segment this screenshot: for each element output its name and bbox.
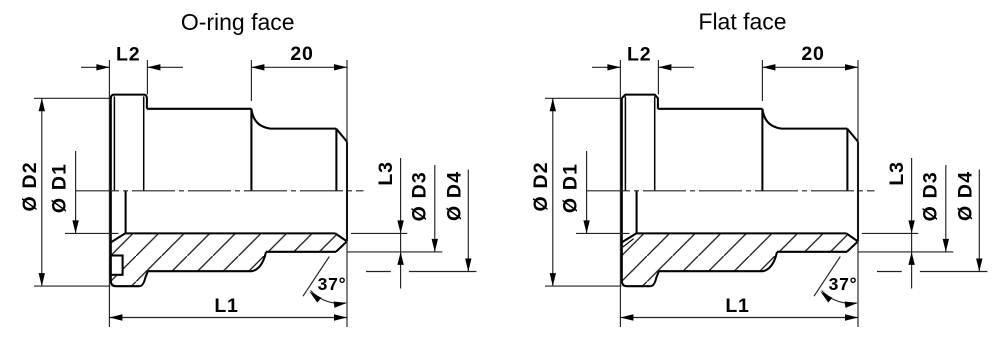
svg-text:Flat face: Flat face — [698, 8, 786, 34]
o-ring groove — [111, 256, 123, 275]
flange top rounded corners — [111, 95, 147, 99]
view O-ring geometry and dimensions — [19, 43, 476, 327]
flange top chamfer corners — [622, 95, 658, 99]
flat face seat second chamfer line — [622, 239, 633, 248]
view Flat face geometry and dimensions — [530, 43, 987, 327]
svg-text:O-ring face: O-ring face — [181, 9, 295, 35]
